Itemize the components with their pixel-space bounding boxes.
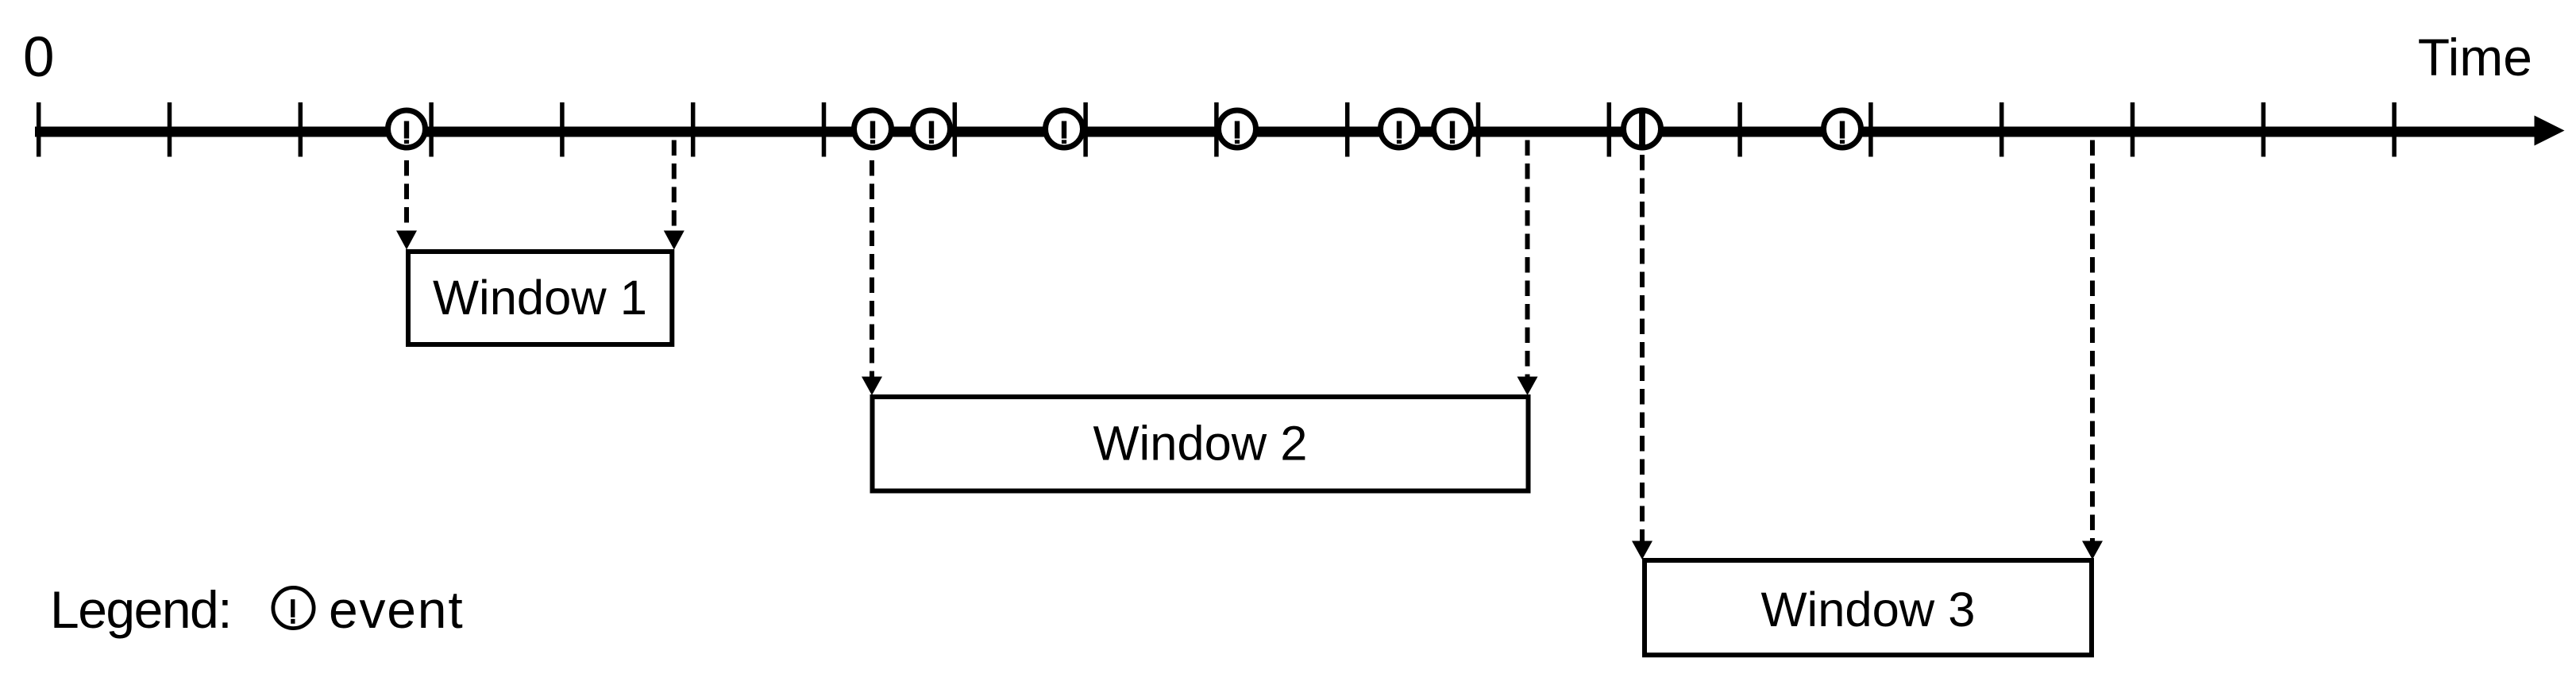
event e1 <box>388 110 426 148</box>
event e4 <box>1046 110 1083 148</box>
event e8 (window3 start, vertical bar) <box>1624 110 1661 148</box>
event e5 <box>1219 110 1256 148</box>
timeline arrowhead <box>2535 116 2565 146</box>
svg-text:0: 0 <box>23 26 55 89</box>
window 1 box <box>408 252 672 344</box>
event e9 <box>1824 110 1861 148</box>
svg-text:Legend:: Legend: <box>50 580 231 639</box>
event e6 <box>1381 110 1418 148</box>
ticks <box>37 102 2397 157</box>
event e7 <box>1434 110 1471 148</box>
window 3 box <box>1645 560 2092 655</box>
svg-text:Window 2: Window 2 <box>1093 417 1307 471</box>
dashed arrow window3 left <box>1632 155 1652 560</box>
legend event symbol <box>273 587 314 628</box>
dashed arrow window1 right <box>664 140 684 250</box>
window 2 box <box>873 397 1529 491</box>
dashed arrow window2 left <box>862 160 882 395</box>
event e2 <box>854 110 892 148</box>
svg-text:Window 1: Window 1 <box>433 271 647 325</box>
svg-text:event: event <box>329 580 464 639</box>
dashed arrow window2 right <box>1517 140 1538 396</box>
svg-text:Window 3: Window 3 <box>1760 583 1975 637</box>
timeline axis <box>35 127 2535 137</box>
svg-text:Time: Time <box>2418 28 2532 87</box>
dashed arrow window3 right <box>2082 140 2103 560</box>
event e3 <box>913 110 951 148</box>
dashed arrow window1 left <box>396 160 417 250</box>
